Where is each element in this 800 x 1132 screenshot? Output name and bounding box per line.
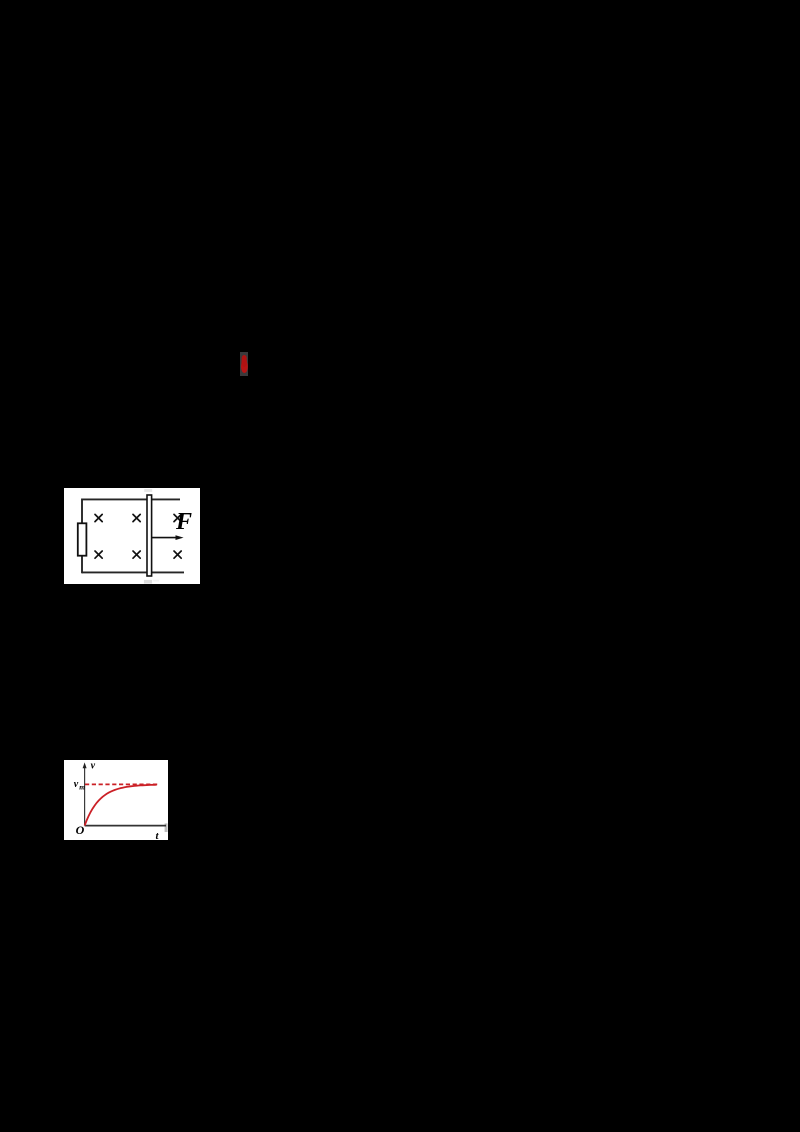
svg-text:O: O — [76, 823, 85, 837]
svg-text:v: v — [91, 760, 96, 771]
svg-text:v: v — [74, 779, 79, 790]
svg-text:m: m — [79, 783, 85, 792]
svg-text:F: F — [175, 509, 192, 535]
svg-text:t: t — [156, 830, 160, 840]
